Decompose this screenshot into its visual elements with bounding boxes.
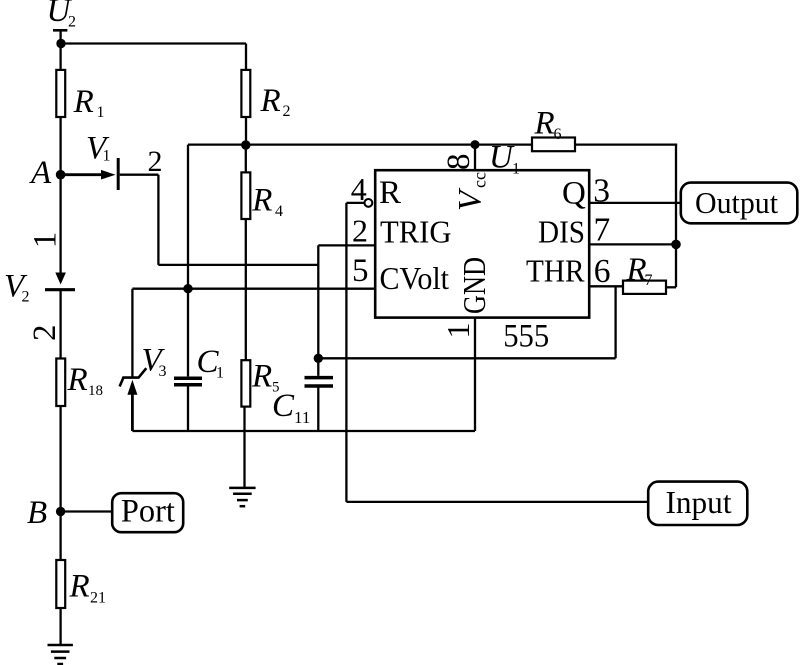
svg-text:R: R <box>73 84 94 120</box>
svg-text:A: A <box>29 155 52 191</box>
svg-text:6: 6 <box>554 126 562 143</box>
svg-text:CVolt: CVolt <box>380 260 450 296</box>
svg-text:2: 2 <box>283 103 291 120</box>
svg-text:1: 1 <box>97 104 105 121</box>
svg-text:TRIG: TRIG <box>380 214 452 250</box>
svg-text:7: 7 <box>594 212 611 249</box>
svg-text:6: 6 <box>594 253 611 290</box>
svg-text:Output: Output <box>695 185 778 220</box>
svg-text:1: 1 <box>103 148 111 165</box>
svg-text:GND: GND <box>456 257 492 314</box>
svg-text:cc: cc <box>470 172 490 188</box>
svg-text:R: R <box>379 175 401 211</box>
svg-text:R: R <box>260 83 281 119</box>
svg-text:2: 2 <box>22 289 30 306</box>
svg-text:5: 5 <box>272 380 280 396</box>
svg-text:R: R <box>534 106 555 142</box>
svg-text:R: R <box>251 183 272 219</box>
svg-text:4: 4 <box>275 203 283 220</box>
svg-text:7: 7 <box>645 272 653 289</box>
svg-text:3: 3 <box>159 363 167 380</box>
svg-text:1: 1 <box>216 365 224 382</box>
svg-text:555: 555 <box>503 318 549 354</box>
svg-text:R: R <box>67 362 88 398</box>
svg-text:1: 1 <box>512 161 520 178</box>
svg-text:21: 21 <box>90 590 106 607</box>
svg-text:18: 18 <box>88 383 103 399</box>
svg-text:Port: Port <box>121 493 175 529</box>
svg-text:1: 1 <box>440 323 476 339</box>
svg-text:2: 2 <box>68 13 76 30</box>
svg-text:5: 5 <box>352 253 369 289</box>
svg-text:Q: Q <box>562 176 586 212</box>
svg-text:R: R <box>69 569 90 605</box>
svg-text:Input: Input <box>666 484 732 520</box>
svg-text:3: 3 <box>593 173 610 210</box>
svg-text:R: R <box>251 358 272 394</box>
svg-text:DIS: DIS <box>538 214 585 250</box>
svg-text:2: 2 <box>352 212 368 248</box>
svg-text:2: 2 <box>27 325 63 342</box>
svg-text:B: B <box>27 495 47 531</box>
svg-text:THR: THR <box>526 253 585 289</box>
svg-text:4: 4 <box>351 171 367 207</box>
svg-text:V: V <box>453 187 489 211</box>
svg-text:11: 11 <box>294 408 310 427</box>
svg-text:1: 1 <box>27 232 63 249</box>
svg-text:8: 8 <box>441 154 477 171</box>
svg-text:2: 2 <box>148 145 163 178</box>
svg-text:R: R <box>626 252 647 288</box>
